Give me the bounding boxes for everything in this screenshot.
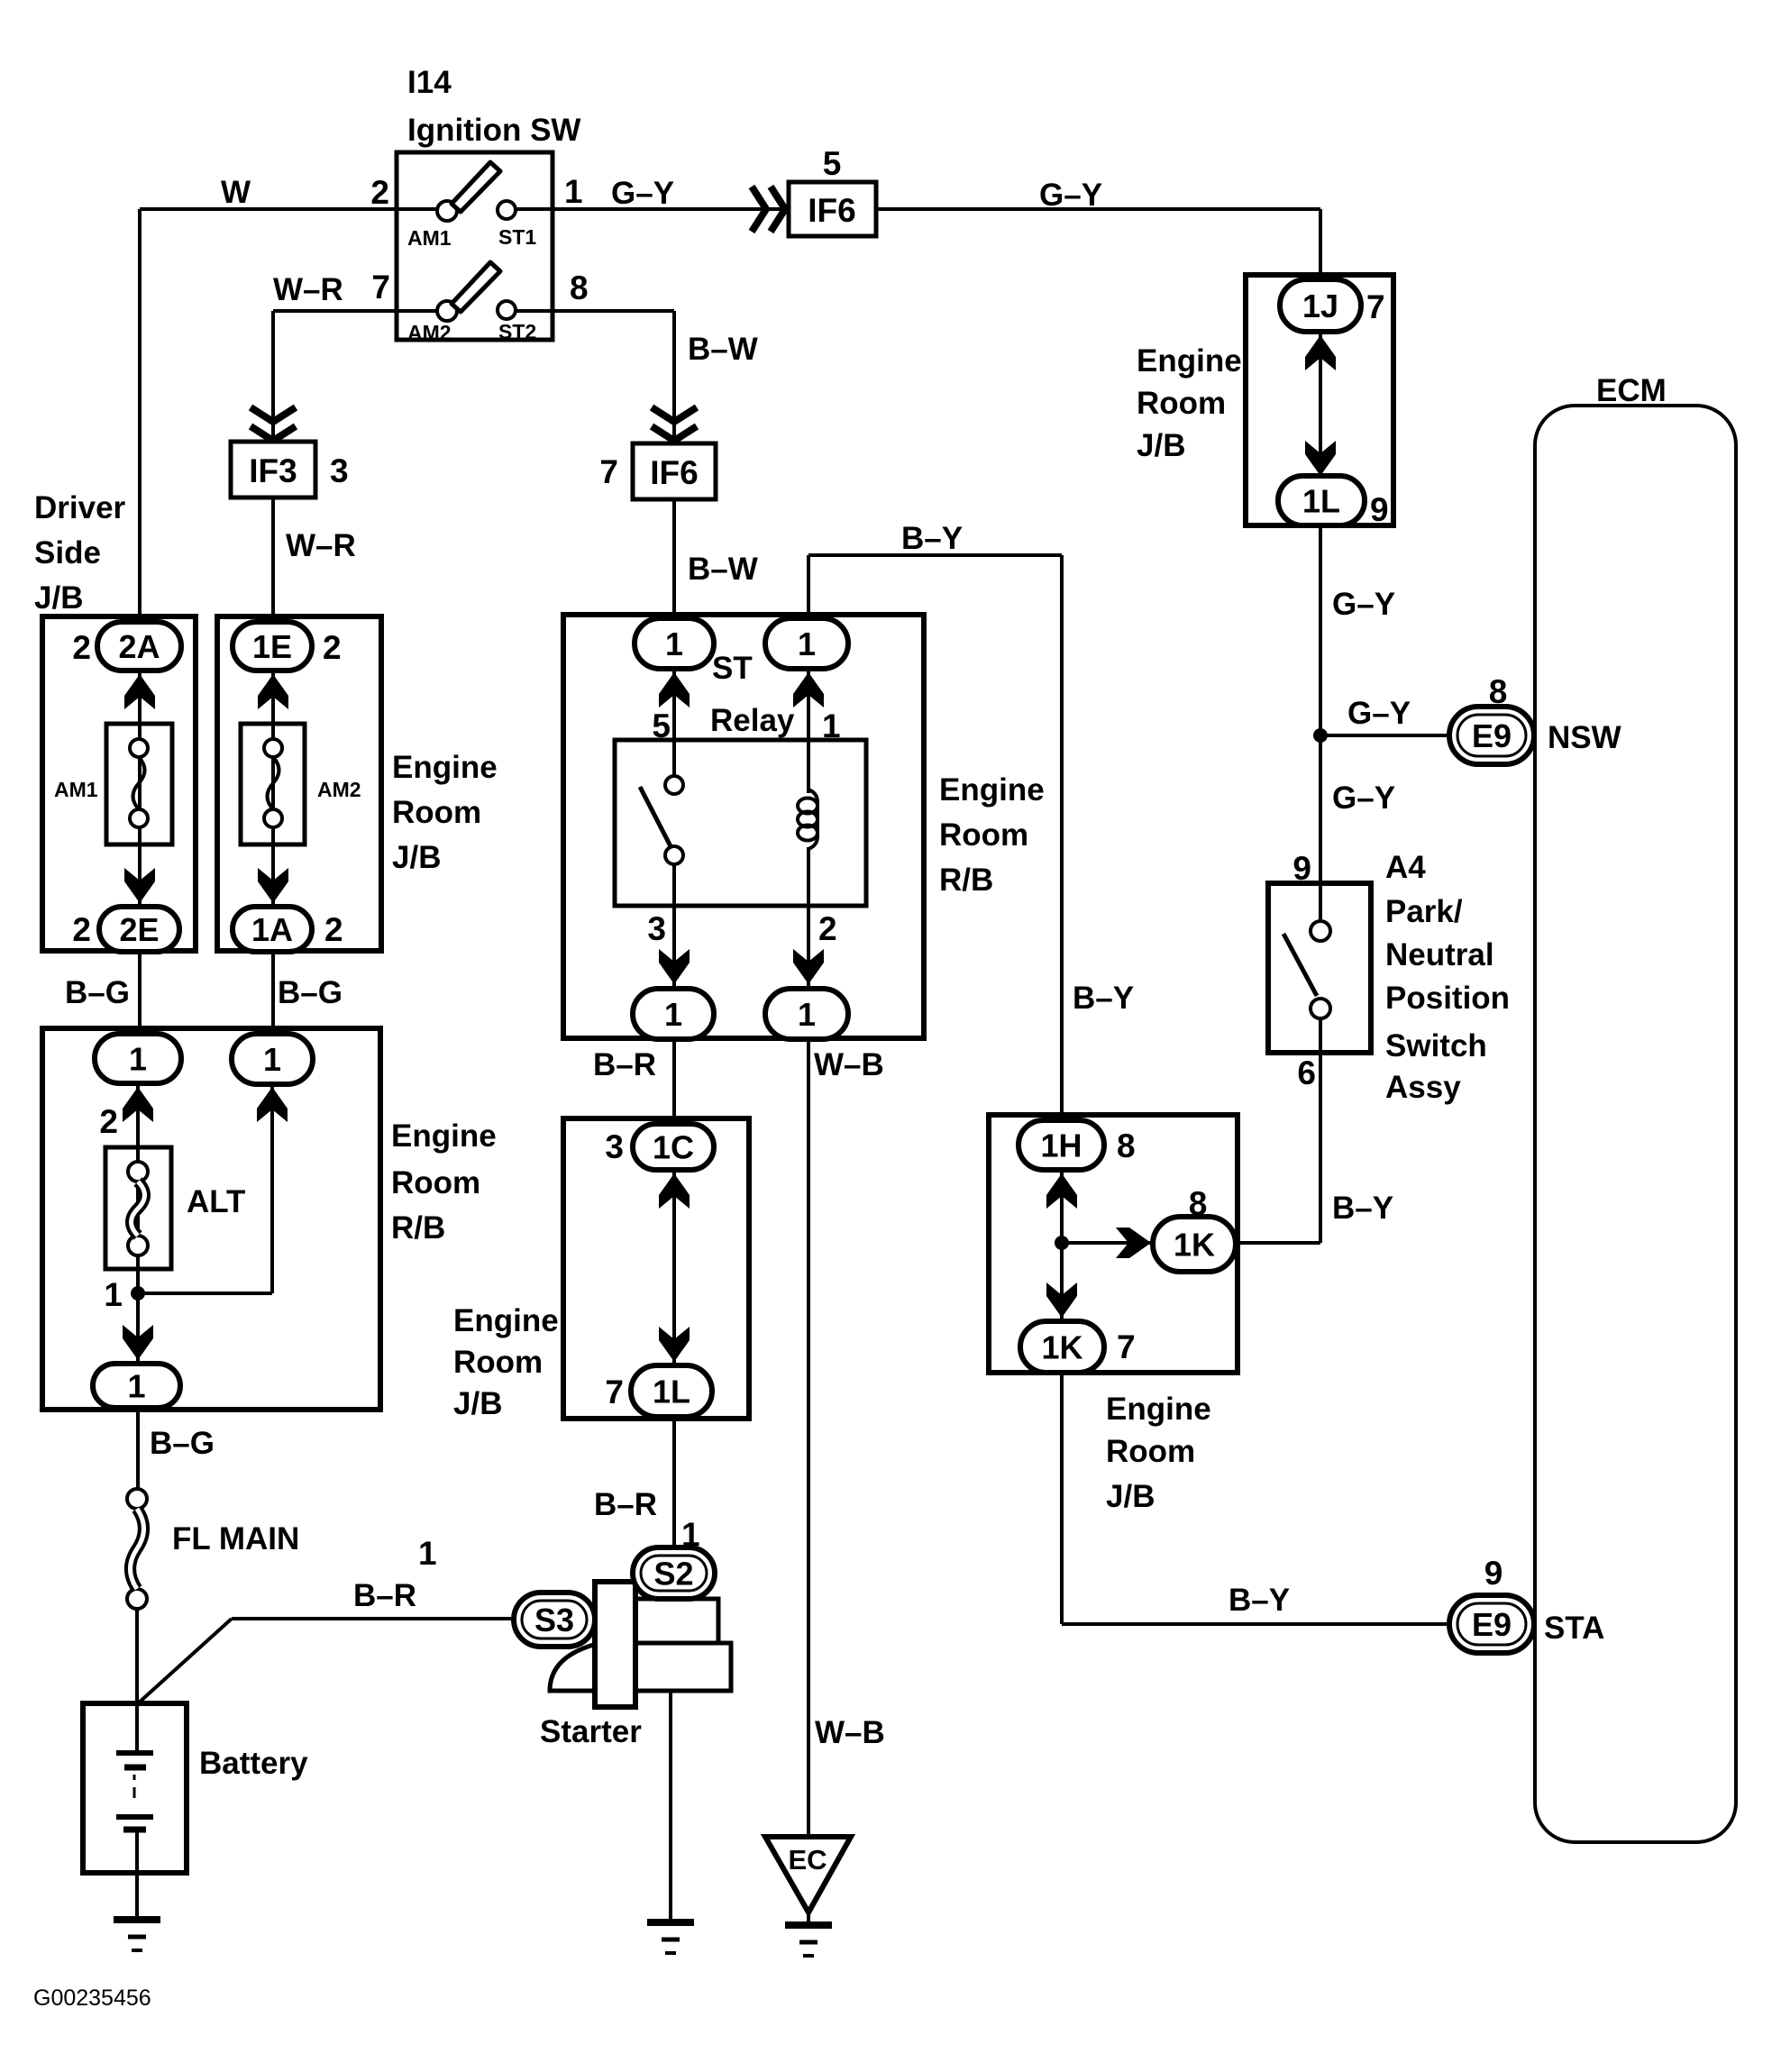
park/neutral contact top xyxy=(1311,921,1330,941)
connector 1E xyxy=(233,622,312,671)
ground below battery xyxy=(114,1916,160,1923)
svg-text:1A: 1A xyxy=(251,911,293,948)
Engine Room R/B label (relay) xyxy=(939,772,1045,898)
fuse AM2 xyxy=(241,724,305,844)
wire W-R from AM2 pin 7 to IF3 xyxy=(273,311,439,442)
svg-text:G–Y: G–Y xyxy=(1347,696,1411,731)
connector 1K bottom xyxy=(1020,1321,1104,1373)
svg-text:Assy: Assy xyxy=(1385,1070,1461,1105)
svg-text:Starter: Starter xyxy=(540,1714,642,1749)
Engine Room J/B box (AM2) xyxy=(217,616,381,951)
svg-text:FL MAIN: FL MAIN xyxy=(172,1521,299,1556)
wire inside relay: pin 5 to switch xyxy=(672,667,676,777)
svg-text:S2: S2 xyxy=(653,1556,693,1593)
svg-text:Switch: Switch xyxy=(1385,1028,1487,1063)
svg-text:IF6: IF6 xyxy=(650,454,698,491)
park/neutral switch arm xyxy=(1283,934,1317,996)
svg-text:Battery: Battery xyxy=(199,1746,308,1781)
arrow down to 1L xyxy=(659,1327,690,1362)
svg-text:7: 7 xyxy=(605,1374,624,1410)
wire inside R/B: junction to right oval xyxy=(138,1084,272,1293)
svg-text:B–R: B–R xyxy=(594,1487,657,1522)
arrow into relay top-left 1 xyxy=(659,672,690,707)
svg-text:E9: E9 xyxy=(1472,717,1512,754)
wire inside 1H/1K J/B: 1H to 1K xyxy=(1060,1170,1064,1325)
starter solenoid xyxy=(595,1582,635,1707)
svg-text:G–Y: G–Y xyxy=(1332,780,1395,816)
svg-text:Room: Room xyxy=(939,817,1028,853)
svg-text:Engine: Engine xyxy=(1137,343,1242,379)
battery box xyxy=(83,1703,187,1873)
svg-text:7: 7 xyxy=(1366,288,1385,325)
wire junction to middle 1K oval xyxy=(1062,1241,1155,1245)
svg-text:ALT: ALT xyxy=(187,1184,245,1219)
svg-text:IF3: IF3 xyxy=(249,452,297,489)
svg-text:1: 1 xyxy=(129,1041,147,1078)
wire G-Y from 1L down to park/neutral switch pin 9 xyxy=(1319,525,1322,921)
junction node at ALT pin 1 xyxy=(131,1286,145,1301)
connector S2 xyxy=(633,1547,715,1599)
svg-text:1: 1 xyxy=(665,625,683,662)
connector 2E xyxy=(99,907,179,952)
wire FL MAIN to battery plate xyxy=(135,1609,139,1753)
connector 1 relay top-right xyxy=(765,618,848,669)
connector 1J xyxy=(1280,279,1361,332)
fuse AM1 xyxy=(106,724,172,844)
svg-text:G–Y: G–Y xyxy=(1332,587,1395,622)
connector 2A xyxy=(97,622,181,671)
svg-text:2: 2 xyxy=(72,911,91,948)
svg-text:7: 7 xyxy=(371,269,390,306)
Engine Room J/B label right xyxy=(392,750,498,875)
svg-text:Room: Room xyxy=(453,1345,543,1380)
svg-text:2: 2 xyxy=(323,629,342,666)
wire left column: 2A-AM1-2E xyxy=(138,671,142,908)
svg-text:1L: 1L xyxy=(1302,483,1340,520)
EC ground triangle xyxy=(765,1837,851,1912)
svg-text:ST: ST xyxy=(712,651,753,686)
svg-text:Engine: Engine xyxy=(392,750,498,785)
connector 1H xyxy=(1018,1120,1104,1170)
battery plates xyxy=(116,1753,153,1830)
connector chevrons into IF6 lower xyxy=(652,407,697,422)
svg-text:B–G: B–G xyxy=(65,975,130,1010)
svg-text:Side: Side xyxy=(34,535,101,570)
svg-text:EC: EC xyxy=(788,1844,827,1876)
svg-text:B–Y: B–Y xyxy=(1073,981,1134,1016)
arrow into 1E xyxy=(258,674,288,709)
ignition key lever AM1 xyxy=(452,162,500,212)
connector IF3 box pin 3 xyxy=(231,442,315,497)
park/neutral position switch A4 box xyxy=(1268,883,1371,1053)
connector 1 relay top-left xyxy=(635,618,714,669)
svg-text:2A: 2A xyxy=(118,628,160,665)
svg-text:W–B: W–B xyxy=(814,1047,884,1082)
ignition ST2 contact xyxy=(498,301,516,319)
svg-text:Ignition SW: Ignition SW xyxy=(407,113,580,148)
connector E9 NSW xyxy=(1449,707,1534,764)
svg-text:B–Y: B–Y xyxy=(1229,1583,1290,1618)
relay switch contact bottom xyxy=(665,846,683,864)
arrow down to relay bottom-right 1 xyxy=(793,949,824,984)
svg-text:1E: 1E xyxy=(252,628,292,665)
wire B-R from battery to starter S3 xyxy=(137,1619,516,1704)
wire B-G from R/B to FL MAIN fuse xyxy=(136,1408,140,1489)
svg-text:G–Y: G–Y xyxy=(611,176,674,211)
connector 1L right xyxy=(1278,476,1365,525)
connector 1K middle xyxy=(1153,1217,1236,1272)
connector 1A xyxy=(233,907,312,952)
arrow down to 2E xyxy=(124,868,155,903)
svg-text:2: 2 xyxy=(72,629,91,666)
svg-text:S3: S3 xyxy=(534,1602,574,1638)
ignition switch I14 box xyxy=(397,152,553,340)
svg-text:Relay: Relay xyxy=(710,703,795,738)
svg-text:1: 1 xyxy=(798,625,816,662)
svg-text:J/B: J/B xyxy=(392,840,441,875)
svg-text:7: 7 xyxy=(599,453,618,490)
Engine Room J/B label (right) xyxy=(1137,343,1242,463)
wire B-G from 1A to Engine Room R/B xyxy=(271,952,275,1036)
svg-text:1: 1 xyxy=(104,1276,123,1313)
ignition key lever AM2 xyxy=(452,262,500,312)
park/neutral labels xyxy=(1385,850,1510,1105)
svg-text:A4: A4 xyxy=(1385,850,1426,885)
svg-text:Room: Room xyxy=(1106,1434,1195,1469)
wire B-Y from 1K to ECM STA xyxy=(1062,1371,1451,1624)
svg-text:AM2: AM2 xyxy=(407,321,452,344)
Engine Room J/B box (1H/1K) xyxy=(989,1115,1238,1373)
wire W-B relay to EC ground xyxy=(807,1036,810,1925)
svg-text:B–Y: B–Y xyxy=(901,521,963,556)
connector 1C xyxy=(633,1124,714,1170)
svg-text:NSW: NSW xyxy=(1548,720,1621,755)
Engine Room R/B label xyxy=(391,1118,497,1246)
svg-text:I14: I14 xyxy=(407,65,452,100)
connector 1L middle xyxy=(631,1365,712,1417)
wire W-R from IF3 to Engine Room J/B 1E xyxy=(271,497,275,625)
fuse ALT xyxy=(105,1147,171,1269)
svg-text:AM1: AM1 xyxy=(407,226,452,250)
wire second column: 1E-AM2-1A xyxy=(271,671,275,908)
ST relay inner box xyxy=(615,740,866,906)
Engine Room R/B box (ALT) xyxy=(42,1028,380,1410)
wire inside relay: coil column upper xyxy=(807,667,810,793)
svg-text:Engine: Engine xyxy=(391,1118,497,1154)
svg-text:E9: E9 xyxy=(1472,1606,1512,1643)
svg-text:W–R: W–R xyxy=(273,272,343,307)
svg-text:5: 5 xyxy=(823,145,842,182)
svg-text:7: 7 xyxy=(1117,1328,1136,1365)
svg-text:1: 1 xyxy=(564,173,583,210)
svg-text:Driver: Driver xyxy=(34,490,126,525)
svg-text:STA: STA xyxy=(1544,1611,1604,1646)
junction node G-Y to NSW xyxy=(1313,728,1328,743)
wire B-G from 2E to Engine Room R/B xyxy=(138,952,142,1036)
ignition ST1 contact xyxy=(498,201,516,219)
relay switch contact top xyxy=(665,776,683,794)
relay switch arm xyxy=(640,787,671,848)
wire B-Y from ST relay coil to Engine Room J/B 1H xyxy=(808,555,1062,1124)
svg-text:J/B: J/B xyxy=(34,580,83,616)
svg-text:1: 1 xyxy=(798,996,816,1033)
svg-text:2: 2 xyxy=(818,910,837,947)
svg-text:Room: Room xyxy=(1137,386,1226,421)
connector 1 relay bottom-left xyxy=(633,989,714,1039)
svg-text:1: 1 xyxy=(418,1535,437,1572)
svg-text:Neutral: Neutral xyxy=(1385,937,1494,972)
svg-text:1: 1 xyxy=(664,996,682,1033)
svg-text:B–W: B–W xyxy=(688,332,758,367)
Engine Room J/B label (1H/1K) xyxy=(1106,1392,1211,1514)
wire B-W from IF6 to ST relay box xyxy=(672,499,676,624)
svg-text:1C: 1C xyxy=(653,1129,694,1166)
arrow down to relay bottom-left 1 xyxy=(659,949,690,984)
wire from park/neutral pin 6 down to 1K xyxy=(1233,1018,1320,1243)
arrow into middle 1K xyxy=(1116,1228,1151,1258)
svg-text:2: 2 xyxy=(370,174,389,211)
wire B-R relay to 1C and down to starter S2 xyxy=(672,1036,676,1556)
Engine Room J/B label (middle) xyxy=(453,1303,559,1421)
svg-text:R/B: R/B xyxy=(939,863,993,898)
connector E9 STA xyxy=(1449,1595,1534,1653)
svg-text:Position: Position xyxy=(1385,981,1510,1016)
connector chevrons into IF3 xyxy=(251,407,296,422)
svg-text:G–Y: G–Y xyxy=(1039,178,1102,213)
connector S3 xyxy=(514,1593,595,1647)
svg-text:ECM: ECM xyxy=(1596,373,1667,408)
svg-text:AM1: AM1 xyxy=(54,778,98,801)
wire inside relay: switch to pin 3 and oval xyxy=(672,863,676,991)
Driver Side J/B label xyxy=(34,490,126,616)
svg-text:J/B: J/B xyxy=(1106,1479,1155,1514)
ECM box xyxy=(1535,406,1736,1842)
arrow down to bottom 1 xyxy=(123,1325,153,1360)
arrow into right 1 xyxy=(257,1087,288,1122)
svg-text:1K: 1K xyxy=(1174,1227,1215,1264)
arrow into relay top-right 1 xyxy=(793,672,824,707)
connector 1 top-right of R/B xyxy=(232,1034,313,1084)
ground below starter xyxy=(647,1919,694,1926)
ST Relay label xyxy=(710,651,795,738)
Engine Room R/B box (ST relay) xyxy=(563,615,924,1038)
svg-text:W: W xyxy=(221,175,251,210)
Engine Room J/B box (1C/1L) xyxy=(563,1118,749,1419)
arrow down to bottom 1K xyxy=(1046,1282,1077,1318)
wire inside Engine Room R/B: ALT column xyxy=(136,1083,140,1366)
connector 1 top-left of R/B xyxy=(95,1034,181,1083)
connector IF6 box pin 5 xyxy=(789,182,876,236)
svg-text:W–B: W–B xyxy=(815,1715,885,1750)
svg-text:AM2: AM2 xyxy=(317,778,361,801)
svg-text:R/B: R/B xyxy=(391,1210,445,1246)
svg-text:J/B: J/B xyxy=(453,1386,502,1421)
svg-text:B–Y: B–Y xyxy=(1332,1191,1393,1226)
park/neutral contact bottom xyxy=(1311,999,1330,1018)
fuse FL MAIN xyxy=(127,1489,147,1509)
svg-text:W–R: W–R xyxy=(286,528,356,563)
ground below EC xyxy=(785,1921,832,1929)
svg-text:1K: 1K xyxy=(1041,1329,1082,1366)
wire B-W from ST2 pin 8 to IF6 xyxy=(516,311,674,443)
svg-text:6: 6 xyxy=(1297,1054,1316,1091)
wire 1J to 1L inside J/B xyxy=(1319,332,1322,476)
svg-text:ST1: ST1 xyxy=(498,225,536,249)
svg-text:1L: 1L xyxy=(653,1374,690,1410)
wire battery to ground xyxy=(135,1830,139,1920)
wire G-Y junction to ECM NSW xyxy=(1320,734,1451,737)
svg-text:1: 1 xyxy=(127,1368,145,1405)
arrow into 1C xyxy=(659,1173,690,1209)
starter motor lower body xyxy=(635,1643,731,1691)
svg-text:B–W: B–W xyxy=(688,552,758,587)
connector IF6 lower box pin 7 xyxy=(633,443,716,499)
svg-text:2: 2 xyxy=(99,1103,118,1140)
svg-text:J/B: J/B xyxy=(1137,428,1185,463)
svg-text:Engine: Engine xyxy=(453,1303,559,1338)
Engine Room J/B box (1J/1L) xyxy=(1246,275,1393,525)
Driver Side J/B box xyxy=(42,616,196,951)
connector 1 bottom of R/B xyxy=(93,1364,180,1408)
arrow down to 1L right xyxy=(1305,441,1336,476)
svg-text:B–R: B–R xyxy=(353,1578,416,1613)
svg-text:Engine: Engine xyxy=(939,772,1045,808)
svg-text:B–G: B–G xyxy=(150,1426,215,1461)
arrow into 2A xyxy=(124,674,155,709)
svg-text:9: 9 xyxy=(1370,491,1389,528)
svg-text:G00235456: G00235456 xyxy=(33,1985,151,2011)
svg-text:B–R: B–R xyxy=(593,1047,656,1082)
svg-text:8: 8 xyxy=(1117,1127,1136,1164)
svg-text:Room: Room xyxy=(392,795,481,830)
ignition AM2 contact xyxy=(437,301,457,321)
wire G-Y from ST1 pin 1 to IF6 and ECM side xyxy=(516,209,1320,285)
svg-text:1J: 1J xyxy=(1302,288,1338,324)
connector chevrons into IF6 top xyxy=(752,187,766,232)
arrow into 1J xyxy=(1305,335,1336,370)
svg-text:Engine: Engine xyxy=(1106,1392,1211,1427)
svg-text:B–G: B–G xyxy=(278,975,343,1010)
ignition AM1 contact xyxy=(437,201,457,221)
wire inside relay: coil column lower xyxy=(807,847,810,991)
svg-text:3: 3 xyxy=(330,452,349,489)
svg-text:1: 1 xyxy=(263,1041,281,1078)
svg-text:9: 9 xyxy=(1484,1555,1503,1592)
svg-text:1H: 1H xyxy=(1040,1127,1082,1164)
relay coil xyxy=(798,790,817,849)
starter bell housing xyxy=(550,1644,597,1691)
svg-text:2E: 2E xyxy=(119,911,159,948)
connector 1 relay bottom-right xyxy=(765,989,848,1039)
svg-text:8: 8 xyxy=(570,269,589,306)
svg-text:Room: Room xyxy=(391,1165,480,1200)
svg-text:3: 3 xyxy=(605,1128,624,1165)
wire W from ignition SW pin 2 to Driver Side J/B xyxy=(140,209,439,625)
wire starter body to ground xyxy=(669,1689,672,1922)
arrow into left 1 xyxy=(123,1087,153,1122)
arrow into 1H xyxy=(1046,1173,1077,1209)
starter motor upper body xyxy=(635,1599,718,1644)
svg-text:Park/: Park/ xyxy=(1385,894,1463,929)
wire inside middle J/B: 1C to 1L xyxy=(672,1170,676,1368)
arrow down to 1A xyxy=(258,868,288,903)
svg-text:3: 3 xyxy=(647,910,666,947)
svg-text:ST2: ST2 xyxy=(498,320,536,343)
svg-text:2: 2 xyxy=(324,911,343,948)
svg-text:IF6: IF6 xyxy=(808,192,855,229)
junction node in 1H/1K J/B xyxy=(1055,1236,1069,1250)
